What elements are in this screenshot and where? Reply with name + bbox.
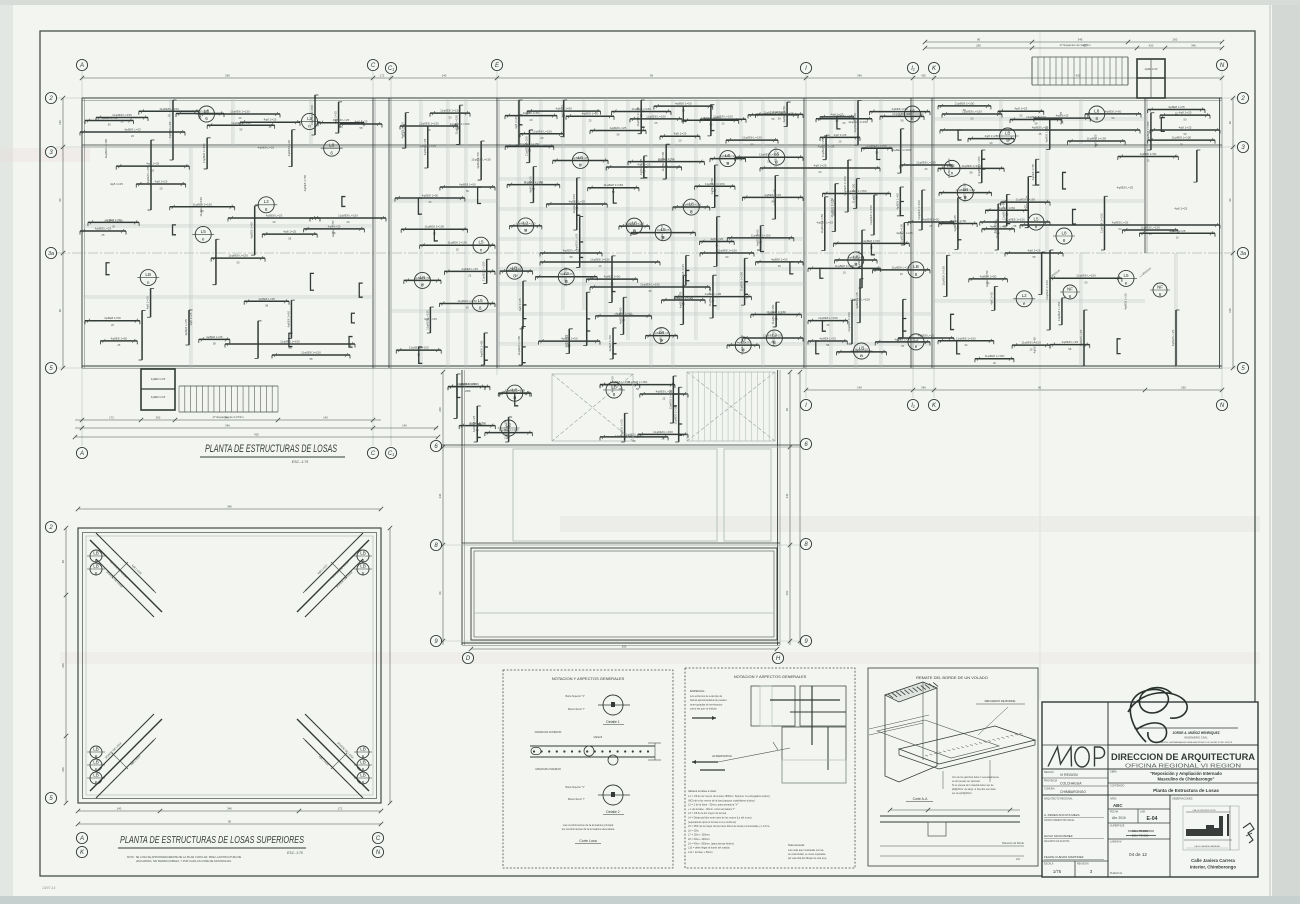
partition xyxy=(739,98,741,340)
beam xyxy=(527,110,600,112)
wing bottom wall xyxy=(462,642,780,644)
slab label xyxy=(769,149,785,165)
stair bottom-left xyxy=(179,385,278,387)
grid line column A xyxy=(81,71,83,446)
svg-text:11φ8Ε8 1=150: 11φ8Ε8 1=150 xyxy=(603,183,623,187)
beam top strip xyxy=(816,118,872,120)
svg-text:8: 8 xyxy=(265,207,268,212)
svg-text:260: 260 xyxy=(622,645,627,649)
svg-text:11φ8Ε8 L=150: 11φ8Ε8 L=150 xyxy=(916,161,936,165)
sq corner beams TR xyxy=(305,533,363,591)
beam xyxy=(743,337,803,339)
beam xyxy=(674,296,751,298)
beam row3a xyxy=(540,252,602,254)
svg-text:e: e xyxy=(579,163,582,168)
grid marker 2 left xyxy=(45,92,56,103)
partition xyxy=(1174,253,1176,368)
hook bar xyxy=(837,117,841,129)
beam row3a xyxy=(1005,252,1063,254)
svg-text:11φ8Ε8 1=150: 11φ8Ε8 1=150 xyxy=(835,264,855,268)
wing wall row8 xyxy=(462,542,780,544)
svg-text:140: 140 xyxy=(442,74,447,78)
beam xyxy=(1068,140,1126,142)
beam xyxy=(742,196,803,198)
wing grid row9 line xyxy=(430,640,812,642)
detail 3 isometric xyxy=(869,682,1035,789)
svg-text:LB: LB xyxy=(360,563,366,568)
svg-text:11φ8Ε8 1=150: 11φ8Ε8 1=150 xyxy=(674,404,678,424)
hook bar xyxy=(822,321,826,332)
partition xyxy=(391,199,497,201)
sq marker A xyxy=(76,832,87,843)
partition xyxy=(806,177,932,179)
beam xyxy=(405,113,407,149)
hook bar xyxy=(644,167,648,178)
svg-text:NF: NF xyxy=(1157,284,1163,289)
svg-text:GALVES LASTARRIA AGUILERA SA: GALVES LASTARRIA AGUILERA SAN PEDRO DE L… xyxy=(1160,741,1233,744)
svg-text:11φ8Ε8 L=150: 11φ8Ε8 L=150 xyxy=(867,144,887,148)
svg-text:SUPERFICIE: SUPERFICIE xyxy=(1110,825,1125,828)
beam xyxy=(244,300,289,302)
tb left cell line xyxy=(1042,744,1108,746)
svg-text:4φ8Ε8 L=25: 4φ8Ε8 L=25 xyxy=(658,159,675,163)
hook bar xyxy=(580,242,584,257)
svg-text:FECHA: FECHA xyxy=(1110,811,1119,814)
beam box bottom-left xyxy=(141,369,175,410)
wing marker 8 left xyxy=(430,539,441,550)
svg-text:6: 6 xyxy=(330,150,333,155)
beam xyxy=(1150,113,1152,150)
beam xyxy=(710,105,712,136)
beam xyxy=(859,279,861,323)
svg-text:L8: L8 xyxy=(1061,230,1067,235)
sq top dim xyxy=(78,508,381,510)
svg-text:4φ8Ε8 L=25: 4φ8Ε8 L=25 xyxy=(95,227,112,231)
svg-text:6: 6 xyxy=(362,780,365,785)
beam xyxy=(1148,139,1215,141)
svg-text:PLANTA DE ESTRUCTURAS DE LOSAS: PLANTA DE ESTRUCTURAS DE LOSAS SUPERIORE… xyxy=(120,835,304,846)
svg-text:4φ8 1=25: 4φ8 1=25 xyxy=(146,296,150,309)
svg-text:4φ8Ε8 L=25: 4φ8Ε8 L=25 xyxy=(258,146,275,150)
svg-text:N: N xyxy=(376,850,381,856)
beam xyxy=(638,433,688,435)
beam xyxy=(606,166,681,168)
scan band 3 xyxy=(60,652,1260,664)
svg-text:4φ8Ε8 L=25: 4φ8Ε8 L=25 xyxy=(639,158,643,175)
partition xyxy=(934,199,1145,201)
svg-text:11φ8Ε8 L=150: 11φ8Ε8 L=150 xyxy=(338,214,358,218)
svg-text:4φ8 1=25: 4φ8 1=25 xyxy=(506,426,510,439)
sq circles TL xyxy=(90,550,102,562)
bottom-left dim c xyxy=(75,436,438,438)
svg-text:C: C xyxy=(371,451,376,457)
beam top strip 2 xyxy=(590,129,646,131)
beam xyxy=(1034,117,1090,119)
beam xyxy=(85,119,133,121)
svg-text:11φ8Ε8 1=150: 11φ8Ε8 1=150 xyxy=(1005,218,1025,222)
detail box 1 border xyxy=(503,670,673,868)
svg-text:11φ8Ε8 L=150: 11φ8Ε8 L=150 xyxy=(653,430,673,434)
svg-text:4φ8 1=25: 4φ8 1=25 xyxy=(561,104,565,117)
wing inner room 2 xyxy=(724,449,771,541)
main plan bottom wall xyxy=(82,365,1222,367)
svg-text:11φ8Ε8 1=150: 11φ8Ε8 1=150 xyxy=(590,258,610,262)
svg-text:4φ8 1=25: 4φ8 1=25 xyxy=(1179,111,1192,115)
slab label xyxy=(655,225,671,241)
svg-text:4φ8Ε8 L=25: 4φ8Ε8 L=25 xyxy=(817,221,834,225)
tb vert right xyxy=(1169,795,1171,877)
svg-text:Si se piensa otro material deb: Si se piensa otro material deben ser de xyxy=(952,784,994,787)
slab label xyxy=(572,152,588,168)
grid marker 5 left xyxy=(45,362,56,373)
beam corridor xyxy=(847,160,849,212)
beam xyxy=(1103,196,1105,250)
beam xyxy=(1050,277,1122,279)
svg-text:Barra Superior "V": Barra Superior "V" xyxy=(565,695,585,698)
slab label xyxy=(908,262,924,278)
beam xyxy=(568,329,570,354)
svg-text:Los extremos de esta tipo de: Los extremos de esta tipo de xyxy=(690,695,723,698)
hook bar xyxy=(289,333,293,346)
beam top strip xyxy=(240,121,300,123)
beam xyxy=(507,184,560,186)
beam xyxy=(521,326,523,365)
beam xyxy=(661,299,705,301)
wing inner room xyxy=(513,449,717,541)
hook bar xyxy=(1073,209,1077,224)
svg-text:4φ8Ε 1=25: 4φ8Ε 1=25 xyxy=(1145,67,1158,71)
svg-text:L7 = 15/a + 100mm.: L7 = 15/a + 100mm. xyxy=(688,834,711,837)
beam xyxy=(429,307,431,333)
bottom dim line I-N xyxy=(806,389,1222,391)
beam xyxy=(1020,224,1220,226)
svg-text:AREA: AREA xyxy=(1110,798,1117,801)
svg-text:PLANTA DE ESTRUCTURAS DE LOSAS: PLANTA DE ESTRUCTURAS DE LOSAS xyxy=(205,443,337,455)
hook bar xyxy=(957,341,961,354)
beam xyxy=(395,197,465,199)
partition xyxy=(497,207,806,209)
svg-text:4φ8Ε8 L=25: 4φ8Ε8 L=25 xyxy=(610,126,627,130)
svg-text:11φ8Ε8 1=150: 11φ8Ε8 1=150 xyxy=(917,200,921,220)
grid marker A top xyxy=(76,59,87,70)
wing grid row8 line xyxy=(430,544,812,546)
slab label xyxy=(195,226,211,242)
paper top edge strip xyxy=(0,0,1300,5)
slab label xyxy=(908,334,924,350)
beam xyxy=(998,110,1044,112)
svg-text:172: 172 xyxy=(338,807,343,811)
svg-text:I₁: I₁ xyxy=(911,66,915,72)
beam xyxy=(540,261,660,263)
slab label xyxy=(654,328,670,344)
beam top strip xyxy=(1160,114,1210,116)
svg-text:11φ8Ε8 1=150: 11φ8Ε8 1=150 xyxy=(425,225,445,229)
beam xyxy=(80,131,185,133)
svg-text:4φ8Ε8 L=25: 4φ8Ε8 L=25 xyxy=(287,140,291,157)
slab label xyxy=(735,337,751,353)
beam top strip xyxy=(942,113,1002,115)
svg-text:LB: LB xyxy=(360,772,366,777)
svg-text:4φ8Ε8 1=50: 4φ8Ε8 1=50 xyxy=(479,340,483,357)
svg-text:6: 6 xyxy=(1069,294,1072,299)
beam xyxy=(459,105,461,144)
beam xyxy=(1035,159,1037,185)
beam xyxy=(898,337,954,339)
svg-text:260: 260 xyxy=(61,767,65,772)
beam top strip xyxy=(700,118,746,120)
beam xyxy=(755,113,803,115)
svg-text:REGION: REGION xyxy=(1044,771,1054,774)
detail box 2 border xyxy=(685,668,855,868)
beam xyxy=(900,164,952,166)
svg-text:140: 140 xyxy=(857,386,862,390)
svg-text:n: n xyxy=(147,280,150,285)
svg-text:Las cotas aqui mostradas son l: Las cotas aqui mostradas son las xyxy=(788,849,824,852)
beam corridor xyxy=(873,195,875,235)
svg-text:260: 260 xyxy=(438,407,442,412)
svg-text:11φ8Ε8 1=150: 11φ8Ε8 1=150 xyxy=(763,110,783,114)
beam xyxy=(1012,344,1050,346)
wing marker 9 left xyxy=(430,635,441,646)
wing wall row6 xyxy=(436,444,806,446)
svg-text:140: 140 xyxy=(402,424,407,428)
partition xyxy=(829,98,831,368)
svg-text:4φ8Ε8 1=50: 4φ8Ε8 1=50 xyxy=(863,239,880,243)
svg-text:4φ8Ε8 L=25: 4φ8Ε8 L=25 xyxy=(660,224,664,241)
partition xyxy=(806,207,932,209)
svg-text:L9 = 40/a + 300mm. (para demas: L9 = 40/a + 300mm. (para demas limites) xyxy=(688,842,734,845)
svg-text:140: 140 xyxy=(117,807,122,811)
beam xyxy=(957,198,959,250)
svg-text:LB: LB xyxy=(913,264,919,269)
svg-text:4φ8Ε8 L=25: 4φ8Ε8 L=25 xyxy=(258,297,275,301)
svg-text:JORGE A. MUÑOZ HENRIQUEZ: JORGE A. MUÑOZ HENRIQUEZ xyxy=(1172,730,1219,735)
hook bar xyxy=(982,159,986,169)
svg-text:ABC: ABC xyxy=(1113,803,1123,808)
svg-text:Corte A-A: Corte A-A xyxy=(913,797,928,801)
svg-text:2: 2 xyxy=(48,525,53,531)
hook bar xyxy=(359,283,363,297)
svg-text:4φ8 1=25: 4φ8 1=25 xyxy=(110,182,123,186)
svg-text:4φ8Ε8 1=50: 4φ8Ε8 1=50 xyxy=(582,112,599,116)
svg-text:L4 = Distancia libre entre eje: L4 = Distancia libre entre ejes de los m… xyxy=(688,817,752,820)
beam xyxy=(404,279,441,281)
svg-text:VI REGION: VI REGION xyxy=(1060,773,1078,777)
grid marker C&#8321; bottom xyxy=(385,447,396,458)
partition xyxy=(189,147,191,368)
hook bar xyxy=(686,270,690,280)
svg-text:4φ8Ε8 1=50: 4φ8Ε8 1=50 xyxy=(768,312,785,316)
beam xyxy=(500,270,533,272)
sq circles BL xyxy=(90,746,102,758)
wing marker H xyxy=(772,652,783,663)
svg-text:4φ8Ε8 L=25: 4φ8Ε8 L=25 xyxy=(771,329,775,346)
beam xyxy=(645,335,677,337)
hook bar xyxy=(351,313,355,323)
beam xyxy=(981,150,983,183)
hook bar xyxy=(641,111,645,127)
grid line column E xyxy=(496,71,498,375)
slab label xyxy=(848,252,864,268)
beam xyxy=(673,206,710,208)
slab label xyxy=(1016,291,1032,307)
svg-text:D: D xyxy=(466,656,471,662)
wing big room xyxy=(471,548,777,640)
slab label xyxy=(507,263,523,279)
svg-text:8: 8 xyxy=(1063,238,1066,243)
svg-text:ESC.-1:75: ESC.-1:75 xyxy=(292,460,309,464)
sq marker 2 xyxy=(45,521,56,532)
hook bar xyxy=(717,242,721,253)
svg-text:n: n xyxy=(860,353,863,358)
tb name 1 line xyxy=(1044,817,1104,819)
hook bar xyxy=(951,314,955,329)
svg-text:4φ8 1=25: 4φ8 1=25 xyxy=(508,268,521,272)
partition xyxy=(999,98,1001,147)
svg-text:4φ8Ε8 L=25: 4φ8Ε8 L=25 xyxy=(857,250,861,267)
svg-text:4φ8Ε8 L=25: 4φ8Ε8 L=25 xyxy=(124,128,141,132)
svg-text:260: 260 xyxy=(1181,386,1186,390)
svg-text:4φ8Ε8 L=25: 4φ8Ε8 L=25 xyxy=(918,334,935,338)
slab label xyxy=(1028,214,1044,230)
svg-text:11φ8Ε8 L=150: 11φ8Ε8 L=150 xyxy=(1172,136,1192,140)
svg-text:11φ8Ε8 L=150: 11φ8Ε8 L=150 xyxy=(640,283,660,287)
beam xyxy=(439,302,495,304)
svg-text:OFICIO INSPECTOR FISCAL: OFICIO INSPECTOR FISCAL xyxy=(1044,819,1075,822)
slab label xyxy=(720,151,736,167)
partition xyxy=(497,237,806,239)
svg-text:4φ8 1=25: 4φ8 1=25 xyxy=(990,292,994,305)
beam xyxy=(836,351,886,353)
svg-text:A: A xyxy=(79,451,84,457)
svg-text:6: 6 xyxy=(95,780,98,785)
svg-text:L8 = 20/a + 100mm.: L8 = 20/a + 100mm. xyxy=(688,838,711,841)
svg-text:Planta de Estructura de Losas: Planta de Estructura de Losas xyxy=(1153,788,1219,793)
svg-text:(equivalente tipos si la losa: (equivalente tipos si la losa no es cont… xyxy=(688,821,736,824)
partition xyxy=(761,98,763,368)
svg-text:4φ8Ε8 1=50: 4φ8Ε8 1=50 xyxy=(1140,152,1157,156)
svg-text:NF: NF xyxy=(1067,286,1073,291)
svg-text:8: 8 xyxy=(479,306,482,311)
beam xyxy=(576,178,578,230)
hook bar xyxy=(958,130,962,140)
detail 2 circle xyxy=(603,785,623,805)
bottom scanner strip xyxy=(0,896,1300,904)
svg-text:11φ8Ε8 1=150: 11φ8Ε8 1=150 xyxy=(848,120,868,124)
svg-text:11φ8Ε8 1=150: 11φ8Ε8 1=150 xyxy=(447,241,467,245)
hook bar xyxy=(478,187,482,203)
beam xyxy=(714,165,716,208)
beam xyxy=(980,221,1050,223)
svg-text:11φ8Ε8 1=150: 11φ8Ε8 1=150 xyxy=(482,261,486,281)
grid marker A bottom xyxy=(76,447,87,458)
svg-text:e: e xyxy=(421,283,424,288)
svg-text:11φ8Ε8 1=150: 11φ8Ε8 1=150 xyxy=(636,107,640,127)
svg-text:11φ8Ε8 1=150: 11φ8Ε8 1=150 xyxy=(524,182,544,186)
beam top strip xyxy=(1010,118,1062,120)
svg-text:LAM.: LAM. xyxy=(1140,811,1146,814)
svg-text:4φ8Ε8 L=25: 4φ8Ε8 L=25 xyxy=(192,109,209,113)
beam xyxy=(116,165,189,167)
svg-text:L5: L5 xyxy=(1123,273,1129,278)
slab label xyxy=(766,330,782,346)
svg-text:LB: LB xyxy=(145,272,151,277)
slab label xyxy=(473,237,489,253)
svg-text:11φ8Ε8 1=150: 11φ8Ε8 1=150 xyxy=(1057,301,1061,321)
svg-text:4φ8Ε8 L=25: 4φ8Ε8 L=25 xyxy=(184,319,188,336)
svg-text:4φ8Ε8 L=25: 4φ8Ε8 L=25 xyxy=(818,144,835,148)
right scanner strip xyxy=(1272,5,1300,896)
grid marker I&#8321; mid xyxy=(907,399,918,410)
svg-text:96: 96 xyxy=(228,820,232,824)
svg-text:4φ8Ε8 1=50: 4φ8Ε8 1=50 xyxy=(923,218,940,222)
slab label xyxy=(606,382,622,398)
beam xyxy=(228,217,320,219)
svg-text:11φ8Ε8 L=150: 11φ8Ε8 L=150 xyxy=(104,219,124,223)
main plan right wall xyxy=(1219,98,1221,368)
tb signature cell bottom xyxy=(1108,744,1258,746)
beam xyxy=(710,158,746,160)
wall K-N upper xyxy=(1144,98,1146,253)
hook bar xyxy=(745,282,749,295)
partition xyxy=(561,98,563,310)
tb contenido line xyxy=(1108,782,1258,784)
svg-text:11φ8Ε8 1=150: 11φ8Ε8 1=150 xyxy=(847,312,851,332)
hook bar xyxy=(1117,339,1121,354)
grid marker 3 right xyxy=(1237,141,1248,152)
svg-text:L2 = 1 de la base - 30mm, para: L2 = 1 de la base - 30mm, para armadura … xyxy=(688,804,738,807)
svg-text:11φ8Ε8 L=150: 11φ8Ε8 L=150 xyxy=(228,254,248,258)
beam xyxy=(643,156,645,178)
svg-text:11φ8Ε8 L=150: 11φ8Ε8 L=150 xyxy=(834,114,854,118)
partition xyxy=(649,98,651,368)
beam xyxy=(586,278,637,280)
beam xyxy=(975,358,1014,360)
svg-text:8: 8 xyxy=(633,228,636,233)
grid line row 5 xyxy=(56,367,1238,369)
beam xyxy=(1175,310,1177,366)
beam xyxy=(735,156,803,158)
beam xyxy=(532,167,534,203)
slab label xyxy=(1118,270,1134,286)
beam xyxy=(535,276,597,278)
slab label xyxy=(1153,283,1167,297)
tb lamina line xyxy=(1108,838,1170,840)
svg-text:4φ8Ε8 L=25: 4φ8Ε8 L=25 xyxy=(168,121,172,138)
svg-text:OFICINA REGIONAL VI REG: OFICINA REGIONAL VI REGION xyxy=(1125,763,1242,769)
beam xyxy=(744,258,746,305)
svg-text:ARQUITECTO REGIONAL: ARQUITECTO REGIONAL xyxy=(1044,798,1073,801)
svg-text:11φ8Ε8 1=150: 11φ8Ε8 1=150 xyxy=(230,110,250,114)
svg-text:I₁: I₁ xyxy=(911,403,915,409)
partition xyxy=(1079,98,1081,147)
svg-text:260: 260 xyxy=(156,416,161,420)
svg-text:8: 8 xyxy=(1095,116,1098,121)
svg-text:n: n xyxy=(480,247,483,252)
svg-text:FELIPE CUEVAS MARTINEZ: FELIPE CUEVAS MARTINEZ xyxy=(1044,855,1084,859)
svg-text:LB: LB xyxy=(93,550,99,555)
svg-text:ARMADURA INFERIOR: ARMADURA INFERIOR xyxy=(535,768,561,771)
grid line row 2 xyxy=(56,97,1238,99)
hook bar xyxy=(173,225,177,235)
svg-text:96: 96 xyxy=(438,591,442,595)
svg-text:L1 = 1/5 de luz menor de la lo: L1 = 1/5 de luz menor de la losa =800cm.… xyxy=(688,795,770,798)
svg-text:6: 6 xyxy=(205,116,208,121)
svg-text:6: 6 xyxy=(1035,224,1038,229)
svg-text:L11 = la base + 50mm.: L11 = la base + 50mm. xyxy=(688,851,714,854)
svg-text:4φ8Ε8 L=25: 4φ8Ε8 L=25 xyxy=(1117,185,1134,189)
beam xyxy=(835,259,877,261)
